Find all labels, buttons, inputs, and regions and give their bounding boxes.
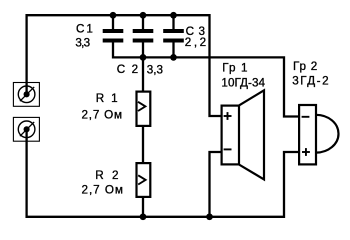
capacitor C1 — [103, 29, 124, 43]
svg-text:10ГД-34: 10ГД-34 — [221, 77, 265, 90]
svg-text:3,3: 3,3 — [75, 37, 90, 50]
resistor R2 — [137, 163, 151, 197]
svg-text:R 2: R 2 — [95, 169, 118, 182]
svg-text:Гр 1: Гр 1 — [222, 62, 247, 75]
wire C2 top lead — [142, 15, 144, 29]
wire R1 to R2 — [142, 126, 144, 163]
svg-text:C 1: C 1 — [76, 23, 93, 36]
loudspeaker Гр1 body — [222, 106, 239, 165]
loudspeaker Гр2 dome — [316, 115, 339, 153]
wire C2 bottom lead — [142, 43, 144, 58]
node junction dots bottom rail — [140, 213, 213, 220]
polarity - of Гр2 — [302, 116, 310, 118]
capacitor C3 — [163, 29, 184, 43]
wire bottom rail net: T2 down, bottom rail, Гр2 + stub — [27, 129, 300, 217]
capacitor C2 — [133, 29, 154, 43]
svg-text:3ГД-2: 3ГД-2 — [292, 75, 328, 88]
wire C1 top lead — [112, 15, 114, 29]
node junction dots top rail — [110, 12, 177, 19]
svg-text:C 2: C 2 — [117, 63, 138, 76]
svg-text:R 1: R 1 — [96, 92, 118, 105]
wire C3 bottom lead — [172, 43, 174, 58]
resistor R1 — [137, 92, 151, 126]
terminal X2 (bottom input) — [13, 117, 39, 141]
polarity + of Гр1 — [224, 112, 232, 120]
wire Гр1 - to bottom rail — [210, 152, 222, 217]
svg-text:3,3: 3,3 — [147, 63, 163, 76]
wire cap rail to R1 — [142, 57, 144, 91]
polarity + of Гр2 — [302, 148, 310, 156]
node junction dots cap rail — [140, 54, 177, 61]
polarity - of Гр1 — [224, 148, 232, 150]
svg-text:2,7 Ом: 2,7 Ом — [82, 109, 123, 122]
loudspeaker Гр2 body — [299, 105, 316, 164]
wire top rail net: T1 up, top rail, Гр1 feed down, Гр1 + stub — [27, 15, 222, 116]
wire C3 top lead — [172, 15, 174, 29]
terminal X1 (top input) — [13, 83, 39, 107]
svg-text:2,2: 2,2 — [185, 36, 207, 49]
wire R2 to bottom rail — [142, 197, 144, 217]
loudspeaker Гр1 cone — [239, 90, 264, 179]
svg-text:2,7 Ом: 2,7 Ом — [82, 183, 123, 196]
svg-text:Гр 2: Гр 2 — [293, 60, 317, 73]
wire cap output rail net: cap1 bottom, rail to Гр2, Гр2 - stub — [113, 43, 299, 117]
